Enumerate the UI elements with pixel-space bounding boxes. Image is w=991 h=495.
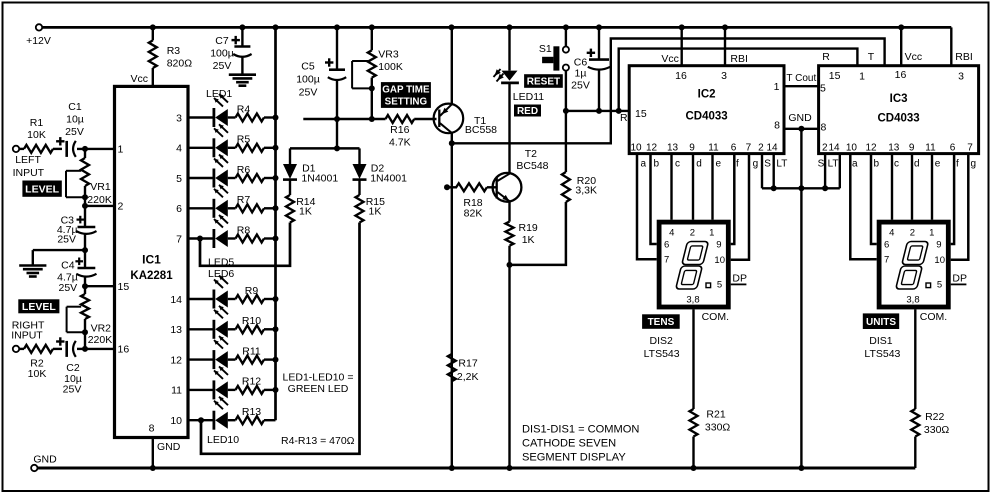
resistor R15 xyxy=(356,195,386,223)
wire R line to IC3 xyxy=(619,49,858,111)
svg-text:R13: R13 xyxy=(242,406,261,418)
svg-text:R17: R17 xyxy=(458,358,477,370)
node bottom rail junction dots xyxy=(150,465,805,471)
svg-text:DIS2: DIS2 xyxy=(650,335,674,347)
svg-text:Vcc: Vcc xyxy=(905,51,923,63)
node GAP TIME SETTING label xyxy=(381,82,431,108)
svg-text:+12V: +12V xyxy=(26,35,51,47)
svg-text:R5: R5 xyxy=(237,134,251,146)
svg-text:15: 15 xyxy=(118,281,130,293)
svg-text:Vcc: Vcc xyxy=(661,53,679,65)
svg-text:82K: 82K xyxy=(464,208,483,220)
svg-text:5: 5 xyxy=(937,280,942,291)
svg-text:GREEN LED: GREEN LED xyxy=(288,383,349,395)
resistor R4 xyxy=(228,103,276,121)
LED LED4 xyxy=(188,185,228,218)
svg-text:DP: DP xyxy=(732,273,747,285)
LED LED3 xyxy=(188,155,228,188)
svg-text:3,8: 3,8 xyxy=(686,294,699,305)
svg-text:3: 3 xyxy=(721,70,727,82)
svg-text:S1: S1 xyxy=(539,43,552,55)
svg-text:g: g xyxy=(753,159,759,170)
svg-text:25V: 25V xyxy=(213,60,232,72)
node IC2 pin1 label xyxy=(774,81,780,93)
svg-text:2: 2 xyxy=(758,143,764,154)
svg-text:R11: R11 xyxy=(242,345,261,357)
svg-text:16: 16 xyxy=(895,69,907,81)
svg-text:4: 4 xyxy=(889,227,894,238)
svg-text:6: 6 xyxy=(950,143,956,154)
svg-text:15: 15 xyxy=(635,108,647,120)
svg-text:R16: R16 xyxy=(390,124,409,136)
svg-text:LTS543: LTS543 xyxy=(864,348,900,360)
svg-text:GND: GND xyxy=(788,112,812,124)
node junction VR3/R16 line xyxy=(369,116,375,122)
svg-text:10: 10 xyxy=(630,143,642,154)
LED LED1 xyxy=(188,94,228,127)
svg-text:2: 2 xyxy=(690,227,695,238)
svg-text:KA2281: KA2281 xyxy=(130,270,173,282)
resistor R2 xyxy=(13,345,62,380)
potentiometer VR1 xyxy=(66,149,112,206)
svg-text:1K: 1K xyxy=(299,206,312,218)
resistor R10 xyxy=(228,315,276,333)
svg-text:R8: R8 xyxy=(237,224,251,236)
svg-text:LEFT: LEFT xyxy=(15,154,41,166)
svg-text:R19: R19 xyxy=(519,222,538,234)
node UNITS label xyxy=(863,313,899,329)
wire IC2 S LT tie xyxy=(762,154,840,192)
svg-text:8: 8 xyxy=(821,122,827,134)
svg-text:LED11: LED11 xyxy=(513,91,544,103)
svg-text:S: S xyxy=(818,159,825,170)
svg-text:1K: 1K xyxy=(369,206,382,218)
LED LED10 xyxy=(188,397,228,430)
wire IC1 pin2 xyxy=(82,203,115,209)
capacitor C4 xyxy=(57,250,96,294)
svg-text:25V: 25V xyxy=(63,384,82,396)
node LED note xyxy=(283,372,354,396)
svg-text:LED1: LED1 xyxy=(206,88,232,100)
svg-text:10: 10 xyxy=(934,255,945,266)
svg-text:16: 16 xyxy=(118,344,130,356)
svg-text:c: c xyxy=(894,159,899,170)
node LED6 label xyxy=(208,268,234,280)
svg-text:11: 11 xyxy=(171,385,182,397)
svg-text:a: a xyxy=(852,159,858,170)
svg-text:T Cout: T Cout xyxy=(786,73,816,84)
wire IC1 pin16 xyxy=(82,346,115,352)
svg-text:1N4001: 1N4001 xyxy=(301,173,338,185)
node IC1 pin numbers xyxy=(118,112,183,434)
svg-text:4.7K: 4.7K xyxy=(389,137,411,149)
wire GND bottom rail xyxy=(38,467,916,470)
svg-text:CD4033: CD4033 xyxy=(685,111,727,123)
svg-text:220K: 220K xyxy=(88,334,113,346)
wire LED5 row to R14 bottom xyxy=(197,223,290,266)
svg-text:14: 14 xyxy=(170,294,182,306)
svg-text:R10: R10 xyxy=(242,315,261,327)
svg-text:16: 16 xyxy=(675,70,687,82)
svg-text:LED1-LED10 =: LED1-LED10 = xyxy=(283,372,354,384)
svg-text:R: R xyxy=(822,51,830,63)
svg-text:2,2K: 2,2K xyxy=(457,371,479,383)
svg-text:1: 1 xyxy=(929,227,934,238)
resistor R22 xyxy=(911,309,949,468)
node DIS1 COM label xyxy=(920,311,947,323)
svg-text:c: c xyxy=(675,159,680,170)
LED LED7 xyxy=(188,306,228,339)
wire R20 bottom link xyxy=(510,202,566,265)
svg-text:BC558: BC558 xyxy=(465,124,497,136)
svg-text:GND: GND xyxy=(157,441,181,453)
svg-text:13: 13 xyxy=(667,143,679,154)
wire reset row R xyxy=(563,108,629,124)
svg-text:IC3: IC3 xyxy=(890,93,908,105)
svg-text:7: 7 xyxy=(746,143,752,154)
node IC2 bottom pin labels xyxy=(630,143,787,170)
svg-text:COM.: COM. xyxy=(920,311,947,323)
svg-text:14: 14 xyxy=(766,143,778,154)
wire IC3 d to DIS1 pin2 xyxy=(911,154,913,220)
potentiometer VR3 xyxy=(352,29,403,119)
svg-text:11: 11 xyxy=(708,143,719,154)
wire IC2 b to DIS2 pin6 xyxy=(651,154,657,244)
svg-text:10K: 10K xyxy=(28,368,47,380)
svg-text:220K: 220K xyxy=(87,194,112,206)
svg-text:3,8: 3,8 xyxy=(906,294,919,305)
node LED11 label xyxy=(513,91,544,103)
svg-text:LT: LT xyxy=(828,159,839,170)
svg-text:9: 9 xyxy=(716,240,721,251)
wire IC3 S to tie xyxy=(824,154,826,189)
svg-text:R3: R3 xyxy=(167,45,181,57)
node LED1 label xyxy=(206,88,232,100)
svg-text:12: 12 xyxy=(865,143,877,154)
svg-text:Vcc: Vcc xyxy=(130,73,148,85)
svg-text:e: e xyxy=(935,159,941,170)
svg-text:R7: R7 xyxy=(237,194,251,206)
svg-text:1: 1 xyxy=(859,71,865,83)
svg-text:25V: 25V xyxy=(57,234,76,246)
svg-text:1: 1 xyxy=(709,227,714,238)
wire IC3 e to DIS1 pin1 xyxy=(931,154,933,220)
svg-text:a: a xyxy=(641,159,647,170)
node LEFT INPUT label xyxy=(13,154,45,179)
ground left xyxy=(19,266,46,277)
node Vcc label IC1 xyxy=(130,73,148,85)
svg-text:VR2: VR2 xyxy=(91,323,112,335)
node T1 collector junction xyxy=(449,140,455,146)
svg-text:DP: DP xyxy=(952,273,967,285)
svg-text:R1: R1 xyxy=(30,117,44,129)
wire GND vertical xyxy=(800,129,802,468)
LED LED6 xyxy=(188,276,228,309)
display DIS1 xyxy=(877,220,967,310)
svg-text:25V: 25V xyxy=(65,126,84,138)
node IC3 pin15 label xyxy=(829,70,841,82)
node junction pin1 xyxy=(82,146,88,152)
wire IC2 c to DIS2 pin4 xyxy=(670,154,672,220)
node R19/R20 junction xyxy=(507,262,513,268)
svg-text:R4-R13 = 470Ω: R4-R13 = 470Ω xyxy=(281,435,355,447)
node IC3 R label xyxy=(822,51,830,63)
resistor R16 xyxy=(386,115,437,149)
display DIS2 xyxy=(657,220,747,310)
svg-text:LED6: LED6 xyxy=(208,268,234,280)
wire to left ground xyxy=(33,247,88,265)
svg-text:UNITS: UNITS xyxy=(866,317,896,328)
svg-text:10: 10 xyxy=(846,143,858,154)
svg-text:7: 7 xyxy=(664,255,669,266)
node DIS2 name xyxy=(644,335,680,360)
node DIS note xyxy=(522,424,639,464)
LED LED8 xyxy=(188,336,228,369)
wire T2 collector up xyxy=(508,84,510,174)
svg-text:6: 6 xyxy=(176,203,182,215)
svg-text:SETTING: SETTING xyxy=(385,96,428,107)
resistor R17 xyxy=(448,354,479,383)
node LED5 label xyxy=(208,257,234,269)
svg-text:12: 12 xyxy=(170,354,182,366)
svg-text:4: 4 xyxy=(669,227,674,238)
wire IC2 a to DIS2 pin7 xyxy=(637,154,657,260)
svg-text:R22: R22 xyxy=(925,411,944,423)
svg-text:R4: R4 xyxy=(237,103,251,115)
svg-text:13: 13 xyxy=(888,143,900,154)
svg-text:IC2: IC2 xyxy=(698,89,716,101)
svg-text:7: 7 xyxy=(967,143,973,154)
svg-text:12: 12 xyxy=(646,143,658,154)
IC2 CD4033 xyxy=(629,66,784,154)
svg-text:5: 5 xyxy=(717,280,722,291)
svg-text:LT: LT xyxy=(776,159,787,170)
transistor T1 xyxy=(434,104,498,136)
svg-text:CD4033: CD4033 xyxy=(877,113,919,125)
svg-text:5: 5 xyxy=(176,173,182,185)
svg-text:10µ: 10µ xyxy=(66,114,84,126)
LED LED9 xyxy=(188,366,228,399)
wire IC1 pin8 to GND rail xyxy=(153,438,181,469)
svg-text:INPUT: INPUT xyxy=(11,329,43,341)
svg-text:C7: C7 xyxy=(215,35,229,47)
svg-text:d: d xyxy=(914,159,920,170)
capacitor C1 xyxy=(56,101,114,157)
svg-text:DIS1: DIS1 xyxy=(869,335,893,347)
resistor R18 xyxy=(447,183,497,219)
node LED10 label xyxy=(207,434,239,446)
node DIS1 name xyxy=(864,335,900,360)
svg-text:10: 10 xyxy=(714,255,725,266)
node IC3 T label xyxy=(868,51,875,63)
svg-text:7: 7 xyxy=(176,233,182,245)
LED LED5 xyxy=(188,215,228,248)
GND terminal xyxy=(31,454,57,472)
wire LED10 row to R15 bottom xyxy=(198,223,360,454)
wire IC3 a to DIS1 pin7 xyxy=(850,154,876,260)
svg-text:R6: R6 xyxy=(237,164,251,176)
resistor R1 xyxy=(13,117,62,153)
svg-text:g: g xyxy=(971,159,977,170)
resistor R11 xyxy=(228,345,276,363)
capacitor C7 xyxy=(210,29,251,75)
svg-text:b: b xyxy=(654,159,660,170)
svg-text:3: 3 xyxy=(958,71,964,83)
resistor R14 xyxy=(286,195,316,223)
resistor R6 xyxy=(228,164,276,182)
svg-text:2: 2 xyxy=(910,227,915,238)
node IC3 pin1 label xyxy=(859,71,865,83)
svg-text:11: 11 xyxy=(925,143,936,154)
svg-text:25V: 25V xyxy=(299,86,318,98)
svg-text:1: 1 xyxy=(774,81,780,93)
wire IC3 f to DIS1 pin9 xyxy=(951,154,954,244)
IC3 CD4033 xyxy=(819,66,979,154)
svg-text:1: 1 xyxy=(118,144,124,156)
node R18 junction xyxy=(444,184,450,190)
svg-text:330Ω: 330Ω xyxy=(924,424,950,436)
wire IC2 pin8 to IC3 pin8 GND xyxy=(774,112,826,134)
svg-text:RED: RED xyxy=(517,106,538,117)
svg-text:100µ: 100µ xyxy=(210,48,234,60)
svg-text:5: 5 xyxy=(820,83,826,95)
svg-text:LEVEL: LEVEL xyxy=(22,301,56,313)
resistor R19 xyxy=(506,202,538,469)
svg-text:C5: C5 xyxy=(301,60,315,72)
svg-text:GND: GND xyxy=(33,454,57,466)
svg-text:f: f xyxy=(956,159,959,170)
node R note xyxy=(281,435,355,447)
resistor R21 xyxy=(690,309,731,468)
wire IC3 RBI pin3 xyxy=(951,27,973,82)
svg-text:R: R xyxy=(620,112,628,124)
resistor R3 xyxy=(149,27,192,86)
wire R16 line left stub xyxy=(303,118,385,120)
wire IC2 f to DIS2 pin9 xyxy=(731,154,735,244)
svg-text:T2: T2 xyxy=(525,148,537,160)
node RESET label xyxy=(524,74,563,88)
wire LED bus vertical xyxy=(273,27,279,420)
svg-text:25V: 25V xyxy=(571,80,590,92)
svg-text:330Ω: 330Ω xyxy=(705,422,731,434)
svg-text:SEGMENT DISPLAY: SEGMENT DISPLAY xyxy=(522,452,626,464)
resistor R12 xyxy=(228,376,276,394)
wire IC3 c to DIS1 pin4 xyxy=(891,154,893,220)
node LEVEL label right xyxy=(18,299,59,313)
wire T1 collector down xyxy=(451,132,453,468)
resistor R8 xyxy=(228,224,276,242)
svg-text:COM.: COM. xyxy=(702,311,729,323)
svg-text:e: e xyxy=(716,159,722,170)
svg-text:d: d xyxy=(696,159,702,170)
svg-text:25V: 25V xyxy=(59,282,78,294)
wire +12V top rail xyxy=(42,26,951,29)
svg-text:BC548: BC548 xyxy=(516,160,548,172)
wire IC3 LT to tie xyxy=(839,154,841,189)
svg-text:4: 4 xyxy=(176,143,182,155)
resistor R7 xyxy=(228,194,276,212)
node IC3 bottom pin labels xyxy=(818,143,976,170)
+12V terminal xyxy=(26,24,51,47)
svg-text:f: f xyxy=(736,159,739,170)
svg-text:100µ: 100µ xyxy=(296,74,320,86)
svg-text:3,3K: 3,3K xyxy=(575,185,597,197)
node RIGHT INPUT label xyxy=(11,320,45,342)
svg-text:1µ: 1µ xyxy=(575,68,587,80)
node top rail junction dots xyxy=(150,24,904,30)
resistor R20 xyxy=(562,111,597,202)
wire IC2 Vcc pin16 xyxy=(661,27,687,82)
ground at C7 xyxy=(229,75,256,86)
svg-text:6: 6 xyxy=(664,240,669,251)
svg-text:2: 2 xyxy=(118,201,124,213)
svg-text:DIS1-DIS1 = COMMON: DIS1-DIS1 = COMMON xyxy=(522,424,639,436)
svg-text:8: 8 xyxy=(774,120,780,132)
wire IC2 RBI pin3 xyxy=(721,27,748,82)
wire IC2 g to DIS2 pin10 xyxy=(731,154,749,260)
svg-text:9: 9 xyxy=(909,143,915,154)
capacitor C2 xyxy=(56,337,85,395)
svg-text:RBI: RBI xyxy=(955,51,973,63)
wire T1 emitter to rail xyxy=(451,27,453,104)
svg-text:9: 9 xyxy=(689,143,695,154)
svg-text:LED10: LED10 xyxy=(207,434,239,446)
resistor R5 xyxy=(228,134,276,152)
node TENS label xyxy=(642,314,680,329)
svg-text:820Ω: 820Ω xyxy=(167,58,193,70)
svg-text:14: 14 xyxy=(828,143,840,154)
svg-text:15: 15 xyxy=(829,70,841,82)
svg-text:GAP TIME: GAP TIME xyxy=(382,85,430,96)
LED LED11 xyxy=(494,29,519,83)
svg-text:1K: 1K xyxy=(522,234,535,246)
svg-text:3: 3 xyxy=(176,112,182,124)
svg-text:8: 8 xyxy=(149,423,155,435)
svg-text:9: 9 xyxy=(936,240,941,251)
wire IC1 pin15 xyxy=(82,283,115,289)
svg-text:LTS543: LTS543 xyxy=(644,348,680,360)
wire IC3 b to DIS1 pin6 xyxy=(871,154,877,244)
node DIS2 COM label xyxy=(702,311,729,323)
svg-text:10: 10 xyxy=(170,415,182,427)
svg-text:100K: 100K xyxy=(378,61,403,73)
capacitor C5 xyxy=(296,29,346,148)
resistor R9 xyxy=(228,285,276,303)
svg-text:LEVEL: LEVEL xyxy=(25,183,59,195)
svg-text:CATHODE SEVEN: CATHODE SEVEN xyxy=(522,438,616,450)
transistor T2 xyxy=(493,148,549,202)
svg-text:13: 13 xyxy=(170,324,182,336)
svg-text:INPUT: INPUT xyxy=(13,167,45,179)
svg-text:2: 2 xyxy=(822,143,828,154)
svg-text:VR1: VR1 xyxy=(90,181,111,193)
svg-text:IC1: IC1 xyxy=(142,253,161,267)
svg-text:RBI: RBI xyxy=(730,53,748,65)
wire IC2 e to DIS2 pin1 xyxy=(711,154,713,220)
wire IC3 Vcc pin16 xyxy=(895,27,922,81)
svg-text:R9: R9 xyxy=(245,285,259,297)
svg-text:C1: C1 xyxy=(68,101,82,113)
svg-text:RESET: RESET xyxy=(527,77,560,88)
svg-text:1N4001: 1N4001 xyxy=(370,173,407,185)
wire D1-D2 top xyxy=(290,145,360,151)
node IC2 pin15 label xyxy=(635,108,647,120)
node LEVEL label left xyxy=(22,181,61,197)
svg-text:R12: R12 xyxy=(242,376,261,388)
svg-text:TENS: TENS xyxy=(648,317,675,328)
svg-text:6: 6 xyxy=(731,143,737,154)
svg-text:7: 7 xyxy=(884,255,889,266)
